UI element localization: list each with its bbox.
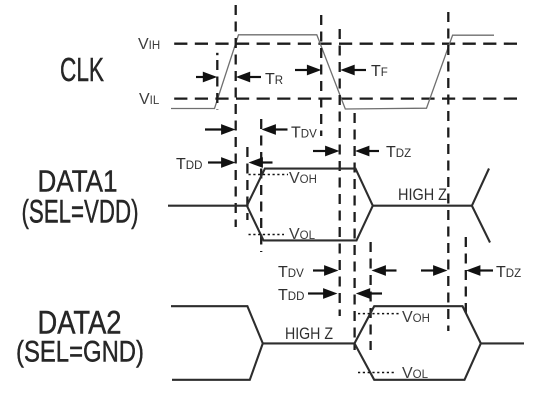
arrow TDZ2 right — [421, 265, 448, 276]
svg-text:CLK: CLK — [60, 51, 104, 88]
svg-text:HIGH Z: HIGH Z — [398, 185, 447, 204]
arrow TDZ1 left — [355, 146, 379, 157]
DATA2 VOH dotted line — [358, 313, 401, 315]
arrow TDZ1 right — [313, 146, 340, 157]
vertical dashed line L1 dot — [216, 53, 218, 55]
svg-text:(SEL=VDD): (SEL=VDD) — [22, 194, 139, 230]
vertical dashed line L9 (CLK rise2 VIH) — [447, 12, 449, 331]
DATA2 VOL dotted line — [358, 372, 395, 374]
arrow TR right — [196, 72, 217, 83]
arrow TDD1 left — [249, 157, 273, 168]
DATA2 waveform — [171, 306, 524, 380]
vertical dashed line L2 (CLK rise VIH) — [235, 5, 237, 227]
arrow TDD1 right — [208, 157, 236, 168]
arrow TR left — [236, 72, 261, 83]
CLK waveform — [171, 35, 494, 109]
vertical dashed line L6 (CLK fall VIL) — [339, 29, 341, 316]
arrow TDD2 left — [356, 288, 382, 299]
arrow TDV2 right — [313, 265, 339, 276]
arrow TDV2 left — [372, 265, 397, 276]
VIH dashed level line — [171, 43, 522, 45]
VIL dashed level line — [171, 97, 522, 99]
svg-text:HIGH Z: HIGH Z — [285, 324, 333, 343]
arrow TF left — [340, 65, 366, 76]
vertical dashed line L5 (CLK fall VIH) — [320, 15, 322, 136]
svg-text:(SEL=GND): (SEL=GND) — [16, 336, 144, 369]
arrow TDV1 right — [205, 124, 236, 135]
DATA1 VOL dotted line — [249, 234, 285, 236]
arrow TDV1 left — [262, 124, 288, 135]
DATA1 waveform — [168, 169, 490, 243]
arrow TDZ2 left — [466, 265, 493, 276]
vertical dashed line L1 (CLK rise VIL) — [216, 60, 218, 110]
arrow TF right — [295, 65, 321, 76]
vertical dashed line L8 (DATA2 valid) — [369, 242, 371, 350]
vertical dashed line L7 (DATA1 Z start / DATA2 transition start) — [353, 113, 355, 350]
vertical dashed line L10 (DATA2 Z start) — [465, 237, 467, 315]
DATA1 VOH dotted line — [249, 174, 289, 176]
vertical dashed line L3 (DATA1 transition start) — [246, 147, 248, 220]
vertical dashed line L4 (DATA1 valid) — [260, 119, 262, 252]
arrow TDD2 right — [308, 288, 338, 299]
